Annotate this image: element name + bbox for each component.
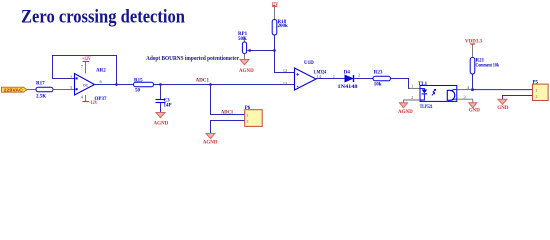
- svg-text:TL1: TL1: [418, 82, 428, 87]
- potentiometer RP1: [238, 32, 248, 59]
- wire opto pin3 to ground: [457, 99, 473, 103]
- ground GND opto: [469, 103, 481, 114]
- svg-text:200k: 200k: [278, 24, 289, 29]
- svg-text:2: 2: [247, 119, 249, 123]
- wire to P6 pin1: [211, 85, 245, 115]
- power -12V pin4: [83, 95, 98, 106]
- svg-text:AGND: AGND: [203, 140, 218, 145]
- port 220VAC: [2, 87, 28, 92]
- svg-text:D4: D4: [344, 70, 351, 75]
- wire output to R15: [95, 84, 134, 86]
- svg-text:Comment 10k: Comment 10k: [476, 63, 500, 68]
- wire C3 to ground: [160, 103, 162, 113]
- svg-text:ADC1: ADC1: [221, 110, 234, 115]
- wire to C3: [160, 85, 162, 100]
- pin 1 stub opto: [410, 87, 420, 89]
- svg-text:13: 13: [283, 81, 288, 86]
- ground AGND under RP1: [239, 60, 254, 75]
- node P6 drop junction: [209, 83, 212, 86]
- svg-text:2: 2: [358, 72, 361, 77]
- svg-text:TLP521: TLP521: [420, 105, 433, 110]
- resistor R15: [134, 79, 154, 94]
- svg-text:R23: R23: [374, 70, 383, 75]
- svg-text:50K: 50K: [238, 37, 247, 42]
- power 12V top: [271, 2, 278, 19]
- wire R15 to U1D pin13: [154, 84, 295, 86]
- svg-text:AGND: AGND: [239, 69, 254, 74]
- svg-text:ADC1: ADC1: [196, 79, 210, 84]
- wire R17 to op-amp pin3: [53, 89, 75, 91]
- svg-text:GND: GND: [469, 109, 481, 114]
- power +12V pin7: [82, 57, 91, 74]
- svg-text:R15: R15: [134, 79, 143, 84]
- svg-text:1N4148: 1N4148: [338, 85, 359, 90]
- svg-text:AGND: AGND: [154, 121, 169, 126]
- svg-text:P6: P6: [245, 106, 251, 111]
- wire node to U1D pin12: [275, 51, 295, 73]
- optocoupler TL1: [418, 82, 457, 110]
- svg-text:1: 1: [536, 88, 538, 92]
- svg-text:P5: P5: [533, 80, 539, 85]
- svg-text:4: 4: [467, 85, 470, 90]
- wire R23 to opto pin1: [391, 79, 411, 89]
- ground AGND under C3: [154, 113, 169, 127]
- svg-text:-: -: [297, 85, 299, 91]
- svg-text:14P: 14P: [164, 104, 172, 109]
- svg-text:2: 2: [536, 95, 538, 99]
- node R21 junction: [471, 88, 474, 91]
- wire wiper: [247, 49, 275, 53]
- wire port to R17: [27, 89, 36, 91]
- svg-text:GND: GND: [497, 106, 509, 111]
- resistor R21: [470, 58, 499, 90]
- svg-text:1: 1: [247, 113, 249, 117]
- svg-text:+: +: [296, 73, 300, 79]
- svg-text:+12V: +12V: [82, 57, 91, 62]
- wire opto pin4 to node: [457, 89, 473, 91]
- ground AGND opto: [398, 103, 413, 115]
- svg-text:220VAC: 220VAC: [4, 87, 23, 92]
- diode D4: [338, 70, 359, 90]
- connector P6: [245, 106, 263, 126]
- node C3 junction: [159, 83, 162, 86]
- svg-text:Adopt BOURNS imported potentio: Adopt BOURNS imported potentiometer: [146, 55, 239, 62]
- resistor R18: [272, 20, 288, 36]
- resistor R17: [36, 82, 53, 100]
- svg-text:R17: R17: [36, 82, 45, 87]
- svg-text:3: 3: [463, 94, 466, 99]
- wire P5 pin2 to ground: [503, 96, 533, 100]
- svg-text:AR2: AR2: [96, 69, 106, 74]
- svg-text:AGND: AGND: [398, 110, 413, 115]
- svg-text:10k: 10k: [374, 82, 382, 87]
- svg-text:50: 50: [135, 89, 141, 94]
- op-amp AR2: [70, 64, 107, 102]
- svg-text:12: 12: [283, 68, 288, 73]
- wire opto pin2 to ground: [404, 100, 421, 103]
- connector P5: [533, 80, 549, 100]
- node divider junction: [273, 49, 276, 52]
- svg-text:OC: OC: [83, 83, 89, 87]
- svg-text:4: 4: [81, 94, 84, 99]
- svg-text:VDD3.3: VDD3.3: [465, 40, 483, 45]
- svg-text:U1D: U1D: [304, 61, 314, 66]
- wire U1D out to D4: [316, 78, 345, 80]
- power VDD3.3: [465, 40, 483, 58]
- wire node to P5 pin1: [473, 89, 533, 91]
- resistor R23: [373, 70, 391, 87]
- wire D4 to R23: [354, 78, 373, 80]
- svg-text:1: 1: [411, 84, 414, 89]
- ground GND P5: [497, 99, 509, 111]
- svg-text:2.5K: 2.5K: [36, 94, 46, 99]
- svg-text:-12V: -12V: [89, 101, 98, 106]
- wire R18 to node: [274, 35, 276, 51]
- op-amp U1D: [283, 61, 327, 91]
- wire P6 pin2 to ground: [211, 121, 245, 134]
- svg-text:2: 2: [411, 95, 414, 100]
- svg-text:7: 7: [81, 64, 84, 69]
- node feedback-output junction: [115, 83, 118, 86]
- wire feedback loop: [53, 56, 117, 85]
- ground AGND under P6: [203, 133, 218, 145]
- svg-text:6: 6: [100, 79, 103, 84]
- svg-text:Zero crossing detection: Zero crossing detection: [21, 7, 185, 28]
- capacitor C3: [156, 99, 172, 109]
